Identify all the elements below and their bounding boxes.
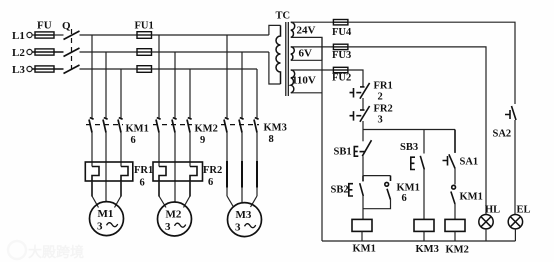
svg-text:L3: L3 (12, 64, 25, 76)
node L3 terminal (27, 66, 32, 71)
thermal relay FR2 heater box (153, 162, 203, 197)
transformer TC primary winding (276, 25, 281, 84)
node L1 terminal (27, 32, 32, 37)
wire L2 bus to transformer (152, 51, 269, 53)
wire lamp EL to rail (514, 229, 516, 241)
svg-text:SA2: SA2 (493, 129, 512, 140)
wire branch3 phase C drop (256, 69, 258, 118)
wire fuse to switch Q pole1 (54, 34, 64, 36)
node L2 terminal (27, 49, 32, 54)
wire branch1 phase A drop (91, 35, 93, 118)
svg-text:L1: L1 (12, 30, 25, 42)
switch Q pole 2 blade (64, 48, 80, 57)
contactor KM1 main contacts (89, 118, 123, 133)
svg-text:KM1: KM1 (397, 183, 420, 194)
svg-text:EL: EL (517, 205, 531, 216)
wire motor M2 entry leads (159, 181, 190, 208)
wire coil KM1 to rail (361, 231, 363, 241)
wire L3 bus after Q (80, 68, 138, 70)
wire L2 bus after Q (80, 51, 138, 53)
wire branch1 phase C drop (120, 69, 122, 118)
left control rail (321, 37, 323, 241)
transformer TC core (285, 22, 287, 96)
svg-text:SB3: SB3 (400, 142, 418, 153)
svg-text:M3: M3 (236, 209, 252, 221)
svg-text:FU3: FU3 (332, 50, 351, 61)
wire branch3 phase B drop (241, 52, 243, 118)
wire SB1 to split node (362, 156, 364, 175)
svg-text:9: 9 (200, 135, 205, 146)
svg-text:SB1: SB1 (334, 147, 352, 158)
motor M1 (90, 202, 124, 236)
svg-text:KM3: KM3 (416, 244, 439, 255)
svg-text:TC: TC (276, 11, 291, 22)
switch Q pole 3 blade (64, 65, 80, 74)
thermal contact FR2 (NC) (350, 106, 370, 122)
wire SA1 to KM1 contact (454, 169, 456, 185)
svg-text:FU1: FU1 (135, 21, 154, 32)
wire 110V top lead to FU2 (291, 69, 334, 71)
wire branch2 phases KM2 to FR2 (159, 133, 190, 203)
thermal contact FR1 (NC) (350, 83, 370, 99)
wire 24V bottom lead (291, 37, 322, 60)
wire node to SA1 column (363, 129, 455, 131)
switch SA1 (443, 130, 456, 169)
wire 24V rail to SA2 column (348, 22, 515, 104)
svg-text:KM1: KM1 (460, 192, 483, 203)
svg-text:FU2: FU2 (332, 73, 351, 84)
contactor KM2 main contacts (156, 118, 192, 133)
svg-text:6: 6 (140, 178, 145, 189)
fuse FU1 (L2 pole) (137, 49, 152, 56)
svg-text:6V: 6V (299, 48, 313, 60)
wire SB3 branch drop (423, 130, 425, 154)
pushbutton SB2 (NO) (349, 176, 364, 196)
wire L2 down to transformer primary (269, 52, 281, 84)
wire FR2 to node (362, 121, 364, 130)
switch Q pole 1 blade (64, 31, 80, 40)
wire SB2 to coil (362, 196, 364, 219)
wire 110V to control column (348, 70, 363, 87)
svg-text:2: 2 (378, 92, 383, 103)
svg-text:FR1: FR1 (374, 81, 393, 92)
contact KM1 aux (NO, self-hold) (385, 176, 391, 200)
wire 6V rail to HL column (348, 47, 486, 215)
svg-text:Q: Q (62, 20, 71, 32)
wire branch2 phase A drop (158, 35, 160, 118)
contactor KM2 linkage dashed (153, 124, 192, 126)
svg-text:SB2: SB2 (331, 185, 349, 196)
watermark logo bottom-left (8, 241, 84, 260)
transformer secondary 24V winding (291, 22, 295, 37)
coil KM2 (445, 219, 465, 231)
wire 24V top lead to FU4 (291, 21, 334, 23)
wire 110V bottom lead (291, 92, 322, 94)
svg-text:110V: 110V (292, 75, 316, 87)
svg-text:6: 6 (402, 193, 407, 204)
contactor KM1 linkage dashed (86, 124, 123, 126)
wire parallel branch top (363, 175, 391, 177)
wire branch2 phase B drop (174, 52, 176, 118)
wire branch2 phase C drop (189, 69, 191, 118)
wire SB3 to coil KM3 (423, 170, 425, 220)
svg-text:FU4: FU4 (332, 27, 352, 38)
contactor KM3 main contacts (224, 118, 259, 133)
svg-text:大殿跨境: 大殿跨境 (28, 244, 84, 260)
svg-text:FR1: FR1 (134, 165, 153, 176)
wire 6V top lead to FU3 (291, 46, 334, 48)
coil KM3 (414, 219, 434, 231)
wire 6V bottom lead (291, 59, 322, 61)
wire L1 bus after Q (80, 34, 138, 36)
wire lamp HL to rail (485, 229, 487, 241)
svg-text:24V: 24V (297, 25, 316, 37)
contact KM1 (NO, interlock) (451, 185, 456, 204)
wire SA2 to lamp EL (514, 120, 516, 215)
svg-text:8: 8 (269, 134, 274, 145)
svg-text:SA1: SA1 (460, 157, 479, 168)
svg-text:HL: HL (485, 205, 500, 216)
svg-text:M2: M2 (166, 209, 182, 221)
svg-text:KM1: KM1 (353, 244, 376, 255)
wire motor M1 entry leads (92, 181, 121, 208)
fuse FU (L1 pole) (35, 32, 54, 38)
wire L1 bus to transformer (152, 34, 269, 36)
pushbutton SB1 (NC) (354, 140, 371, 156)
svg-text:6: 6 (208, 177, 213, 188)
wire KM1 contact to coil KM2 (454, 204, 456, 219)
wire L3 bus (152, 68, 258, 70)
pushbutton SB3 (NO) (411, 156, 425, 170)
svg-text:3: 3 (235, 222, 241, 234)
transformer secondary 6V winding (291, 47, 295, 60)
svg-text:FR2: FR2 (203, 165, 222, 176)
wire coil KM3 to rail (423, 231, 425, 241)
wire branch1 phases KM1 to FR1 (92, 133, 121, 202)
switch SA2 (505, 106, 516, 120)
svg-text:3: 3 (378, 115, 383, 126)
wire motor M3 entry leads (227, 196, 257, 207)
thermal relay FR1 heater box (85, 162, 133, 197)
fuse FU4 (333, 20, 348, 25)
motor M2 (158, 202, 192, 236)
svg-text:KM2: KM2 (195, 124, 218, 135)
wire branch3 phase A drop (226, 35, 228, 118)
lamp HL (479, 215, 493, 229)
wire branch1 phase B drop (105, 52, 107, 118)
svg-text:L2: L2 (12, 47, 25, 59)
svg-text:3: 3 (97, 221, 103, 233)
fuse FU3 (333, 44, 348, 49)
fuse FU1 (L1 pole) (137, 32, 152, 39)
wire parallel branch bottom (363, 200, 391, 209)
wire L1 to fuse FU (32, 34, 35, 36)
contactor KM3 linkage dashed (221, 124, 259, 126)
wire FR1-FR2 (362, 98, 364, 110)
svg-text:KM3: KM3 (264, 123, 287, 134)
fuse FU (L3 pole) (32, 66, 63, 72)
svg-text:M1: M1 (98, 208, 114, 220)
transformer secondary 110V winding (291, 70, 295, 93)
wire coil KM2 to rail (454, 231, 456, 241)
wire node to SB1 (362, 130, 364, 142)
wire L1 up to transformer primary (269, 25, 281, 35)
svg-text:6: 6 (131, 135, 136, 146)
svg-text:3: 3 (165, 221, 171, 233)
bottom control rail (322, 240, 515, 242)
motor M3 (228, 203, 262, 237)
fuse FU2 (333, 67, 348, 72)
wire branch3 phases to motor (thick segment) (227, 133, 257, 162)
coil KM1 (352, 219, 372, 231)
svg-text:KM1: KM1 (126, 124, 149, 135)
fuse FU1 (L3 pole) (137, 66, 152, 73)
svg-text:KM2: KM2 (446, 245, 469, 256)
switch Q linkage dashed (71, 29, 73, 74)
svg-text:FU: FU (37, 20, 52, 32)
fuse FU (L2 pole) (32, 49, 63, 55)
lamp EL (508, 215, 522, 229)
svg-text:FR2: FR2 (374, 104, 393, 115)
